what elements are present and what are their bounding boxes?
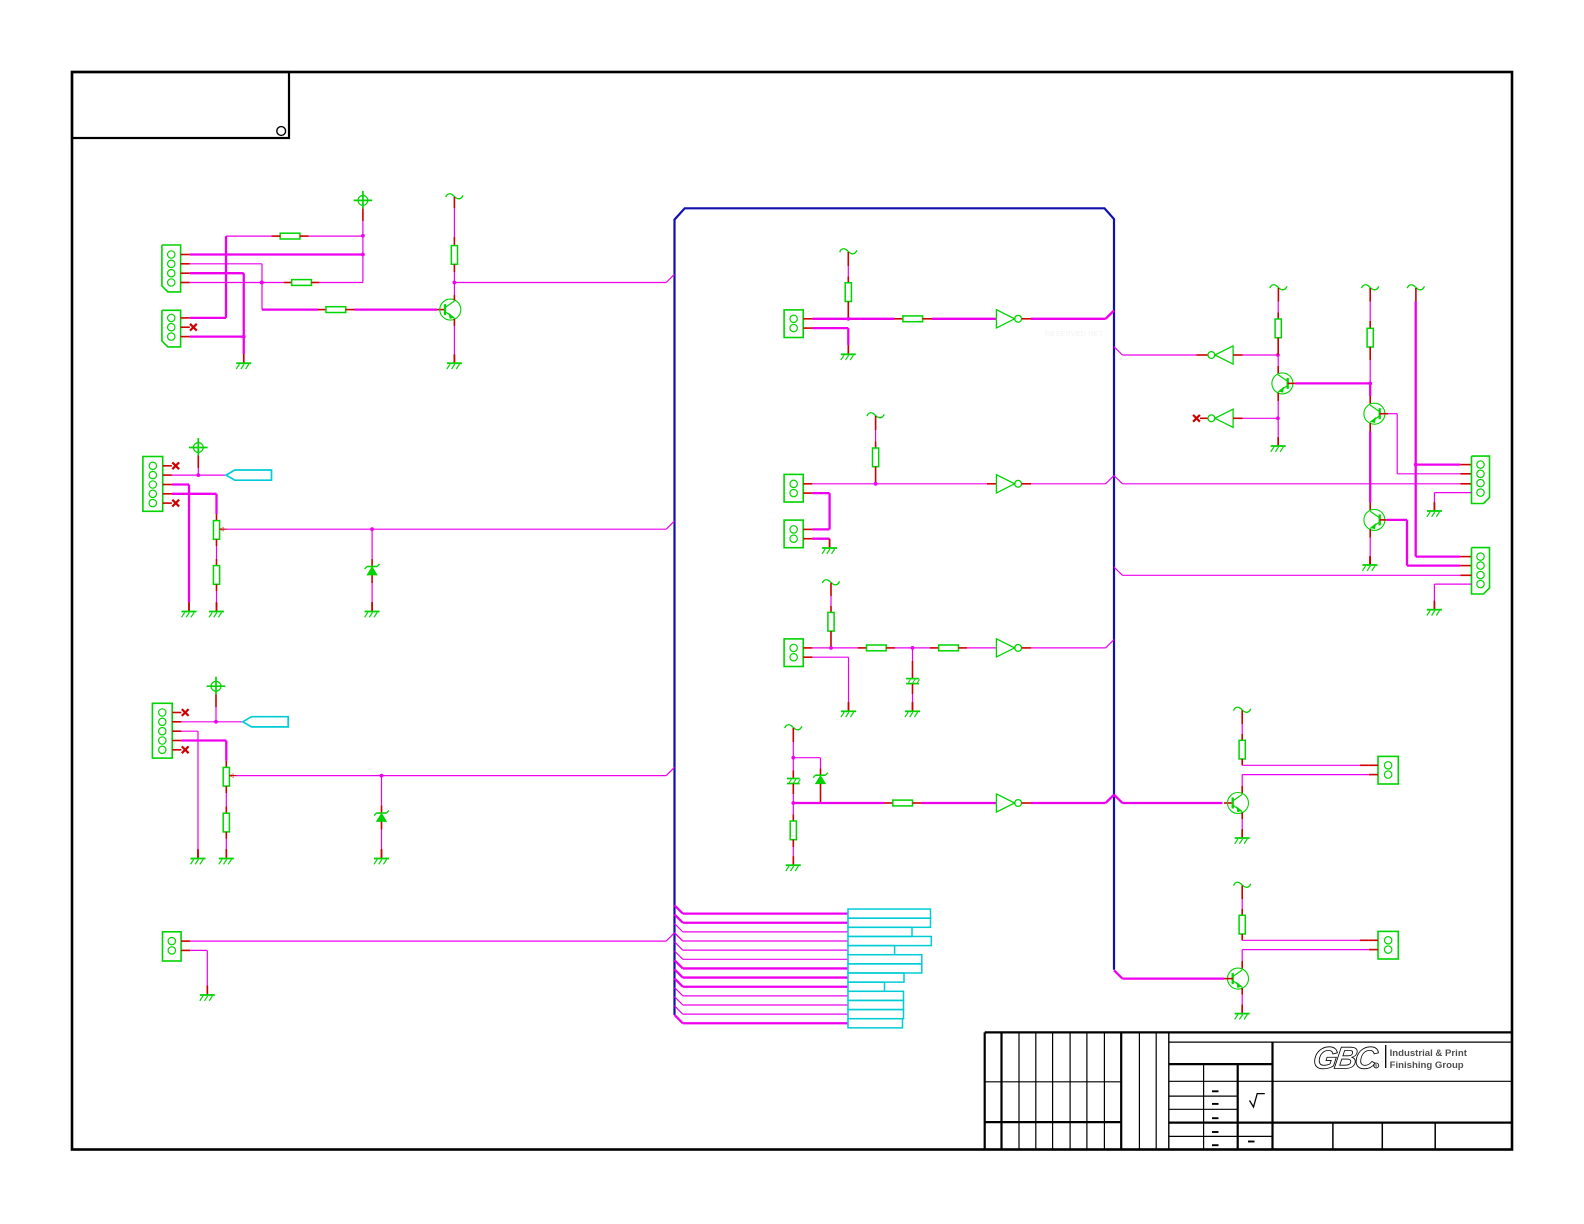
svg-text:GBC: GBC: [1311, 1041, 1380, 1076]
svg-text:R: R: [1375, 1064, 1378, 1069]
svg-text:RESERVED NET: RESERVED NET: [1045, 329, 1104, 338]
svg-text:Industrial & Print: Industrial & Print: [1390, 1048, 1468, 1059]
svg-text:Finishing Group: Finishing Group: [1390, 1060, 1464, 1071]
